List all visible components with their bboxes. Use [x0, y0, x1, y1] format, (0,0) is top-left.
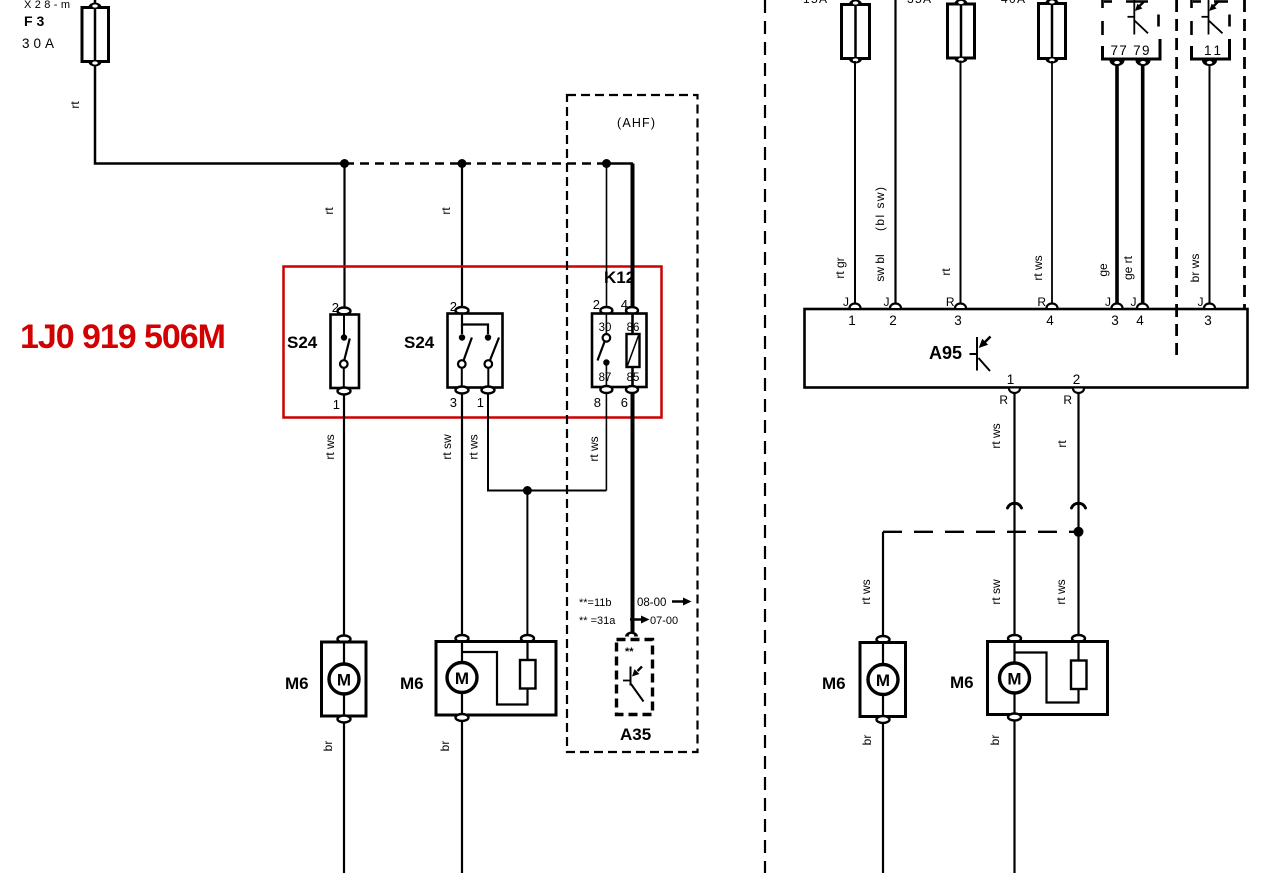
svg-text:M: M	[1007, 670, 1021, 689]
svg-text:3: 3	[954, 313, 962, 328]
svg-text:**: **	[625, 646, 634, 658]
fuse 40A	[1039, 0, 1066, 64]
svg-text:A95: A95	[929, 343, 962, 363]
wire ge to A95 pin3b	[1115, 65, 1119, 306]
A95 bottom pin2 terminal	[1073, 389, 1084, 394]
svg-text:M: M	[455, 669, 469, 688]
wire br below M6#1	[343, 722, 345, 873]
svg-text:2: 2	[889, 313, 897, 328]
junction node K12	[602, 159, 611, 168]
svg-text:rt sw: rt sw	[440, 434, 454, 460]
connector box 77 79	[1103, 0, 1161, 66]
resistor in M6#2	[520, 660, 536, 689]
svg-text:rt ws: rt ws	[467, 434, 481, 459]
wire rt ws S24#1 to M6#1	[343, 394, 345, 639]
svg-text:rt ws: rt ws	[587, 436, 601, 461]
svg-text:1: 1	[333, 397, 340, 412]
fuse 15A	[842, 0, 870, 64]
arrow 08-00	[672, 598, 692, 606]
svg-text:11: 11	[1204, 43, 1221, 58]
svg-text:A35: A35	[620, 725, 651, 744]
svg-text:1J0 919 506M: 1J0 919 506M	[20, 318, 226, 356]
wire br ws to A95 pin3c	[1209, 65, 1211, 306]
wire rt ws from K12 pin8	[605, 393, 607, 491]
A95 pin4 terminal	[1047, 304, 1058, 309]
svg-text:77 79: 77 79	[1111, 43, 1150, 58]
svg-text:br: br	[321, 741, 335, 752]
wire stub to K12 pin4	[607, 162, 634, 165]
svg-text:3: 3	[450, 395, 457, 410]
wire from junction down to M6#2 resistor	[526, 491, 528, 639]
wire rt to S24b pin2	[461, 164, 463, 311]
relay coil 86-85	[631, 314, 634, 335]
svg-text:R: R	[999, 393, 1008, 407]
switch S24 #1	[331, 300, 360, 412]
red highlight box	[284, 267, 662, 418]
wire rt from A95 pin2 down	[1077, 393, 1079, 639]
svg-text:1: 1	[477, 395, 484, 410]
svg-text:R: R	[946, 295, 955, 309]
svg-text:30A: 30A	[22, 36, 54, 51]
svg-text:R: R	[1037, 295, 1046, 309]
dashed line into A95	[1175, 0, 1178, 306]
semiconductor symbol 11	[1208, 0, 1210, 35]
pin 2 terminal	[456, 307, 469, 314]
svg-text:J: J	[1105, 295, 1111, 309]
A95 bottom pin1 terminal	[1009, 389, 1020, 394]
svg-text:J: J	[1198, 295, 1204, 309]
svg-text:J: J	[884, 295, 890, 309]
wire br below M6#4	[1013, 720, 1015, 873]
wire ge rt to A95 pin4b	[1141, 65, 1145, 306]
svg-text:3: 3	[1204, 313, 1212, 328]
pin 4 terminal	[626, 307, 638, 314]
switch body S24#1	[331, 315, 360, 389]
fuse F3 30A	[82, 0, 109, 67]
section divider dashed	[764, 0, 766, 873]
svg-text:M: M	[876, 671, 890, 690]
svg-text:08-00: 08-00	[637, 597, 666, 609]
switch body S24#2	[448, 314, 503, 388]
wire rt to S24 pin2	[343, 164, 345, 312]
wire thick K12 pin6 to A35	[631, 393, 635, 634]
svg-text:rt ws: rt ws	[1054, 579, 1068, 604]
svg-text:85: 85	[627, 372, 640, 384]
relay K12	[592, 297, 647, 410]
wire rt from F3 down	[95, 65, 345, 164]
junction node col1	[340, 159, 349, 168]
dashed line inside A95	[1175, 305, 1178, 359]
svg-text:4: 4	[1046, 313, 1054, 328]
motor M6 #4 with resistor	[988, 635, 1108, 721]
svg-text:4: 4	[1136, 313, 1144, 328]
svg-text:br: br	[988, 735, 1002, 746]
fuse 35A	[948, 0, 975, 63]
svg-text:br: br	[860, 735, 874, 746]
dashed bus wire 345-462	[345, 162, 462, 165]
svg-text:X28-m: X28-m	[24, 0, 70, 11]
svg-text:rt sw: rt sw	[989, 579, 1003, 605]
relay contact 30-87	[605, 314, 607, 335]
dashed box AHF	[567, 95, 698, 752]
A95 pin3b terminal	[1112, 304, 1123, 309]
svg-text:35A: 35A	[907, 0, 931, 6]
svg-text:07-00: 07-00	[650, 615, 678, 627]
svg-text:rt ws: rt ws	[859, 579, 873, 604]
svg-text:1: 1	[1007, 372, 1015, 387]
svg-text:M: M	[337, 671, 351, 690]
junction node pin2 wire	[1074, 527, 1084, 537]
svg-text:M6: M6	[400, 674, 424, 693]
A95 pin4b terminal	[1137, 304, 1148, 309]
svg-text:40A: 40A	[1001, 0, 1025, 6]
svg-text:2: 2	[1073, 372, 1081, 387]
svg-text:** =31a: ** =31a	[579, 615, 616, 627]
wire thick to K12 pin4	[631, 164, 635, 311]
motor M6 #3	[860, 636, 906, 723]
switch S24 #2	[448, 299, 503, 410]
motor M6 #1	[322, 636, 367, 723]
svg-text:R: R	[1063, 393, 1072, 407]
svg-text:K12: K12	[604, 268, 635, 287]
svg-text:rt ws: rt ws	[1031, 255, 1045, 280]
svg-text:rt gr: rt gr	[833, 257, 847, 278]
svg-text:M6: M6	[822, 674, 846, 693]
svg-text:rt: rt	[1055, 440, 1069, 448]
svg-text:sw bl: sw bl	[873, 254, 887, 281]
wire rt ws from A95 pin1 down	[1013, 393, 1015, 639]
svg-text:6: 6	[621, 395, 628, 410]
wire rt ws fuse3 to A95 pin4	[1051, 61, 1053, 306]
semiconductor symbol A95	[976, 337, 978, 371]
svg-text:S24: S24	[287, 333, 318, 352]
svg-text:1: 1	[848, 313, 856, 328]
svg-text:(bl sw): (bl sw)	[873, 187, 887, 231]
wire rt gr fuse1 to A95 pin1	[854, 61, 856, 306]
A95 pin2 terminal	[890, 304, 901, 309]
connector hop on pin2 wire	[1072, 503, 1086, 508]
pin 6 terminal	[626, 386, 638, 393]
wire to K12 pin2	[606, 164, 608, 311]
terminal 11	[1202, 61, 1217, 67]
svg-text:S24: S24	[404, 333, 435, 352]
dashed branch wire to M6#3	[883, 531, 1074, 533]
pin 3 terminal	[456, 387, 469, 394]
wire rt ws down to M6#3	[882, 532, 884, 640]
svg-text:rt ws: rt ws	[323, 434, 337, 459]
semiconductor symbol A35	[630, 667, 632, 686]
svg-text:15A: 15A	[803, 0, 827, 6]
arrow 31a	[630, 616, 650, 624]
svg-text:2: 2	[593, 297, 600, 312]
dashed line right edge	[1243, 0, 1246, 308]
pin 2 terminal	[600, 307, 612, 314]
junction node at M6#2 branch	[523, 486, 532, 495]
svg-text:br: br	[438, 741, 452, 752]
pin 8 terminal	[600, 386, 612, 393]
pin 1 terminal	[482, 387, 495, 394]
svg-text:J: J	[843, 295, 849, 309]
resistor in M6#4	[1071, 661, 1087, 690]
wire rt fuse2 to A95 pin3	[960, 61, 962, 307]
dashed bus wire 462-607	[462, 162, 607, 165]
svg-text:F 3: F 3	[24, 13, 44, 29]
svg-text:br ws: br ws	[1188, 254, 1202, 283]
control unit A95	[805, 295, 1248, 407]
svg-text:ge: ge	[1096, 263, 1110, 277]
svg-text:87: 87	[599, 372, 612, 384]
wire br below M6#2	[461, 721, 463, 873]
semiconductor symbol 77/79	[1133, 0, 1135, 35]
A95 pin1 terminal	[850, 304, 861, 309]
pin 1 terminal	[338, 388, 351, 395]
svg-text:ge rt: ge rt	[1121, 255, 1135, 280]
motor M6 #2 with resistor	[436, 635, 556, 721]
svg-text:3: 3	[1111, 313, 1119, 328]
wire rt sw S24#2 pin3 to M6#2	[461, 393, 463, 639]
connector box 11	[1192, 0, 1230, 66]
A95 pin3 terminal	[955, 304, 966, 309]
svg-text:**=11b: **=11b	[579, 597, 612, 609]
wire sw bl to A95 pin2	[894, 0, 896, 306]
svg-text:rt: rt	[68, 101, 82, 109]
terminal 79	[1136, 61, 1151, 67]
svg-text:M6: M6	[950, 673, 974, 692]
svg-text:J: J	[1131, 295, 1137, 309]
svg-text:rt ws: rt ws	[989, 423, 1003, 448]
svg-text:rt: rt	[322, 207, 336, 215]
control unit A35	[617, 632, 653, 715]
relay body K12	[592, 314, 647, 388]
svg-text:M6: M6	[285, 674, 309, 693]
wire rt ws S24#2 pin1 down	[488, 393, 606, 491]
svg-text:30: 30	[599, 322, 612, 334]
wire br below M6#3	[882, 723, 884, 873]
svg-text:rt: rt	[439, 207, 453, 215]
junction node col2	[458, 159, 467, 168]
svg-text:(AHF): (AHF)	[617, 116, 655, 130]
terminal 77	[1110, 61, 1125, 67]
svg-text:rt: rt	[939, 268, 953, 276]
pin 2 terminal	[338, 308, 351, 315]
A95 pin3c terminal	[1204, 304, 1215, 309]
connector hop on pin1 wire	[1008, 503, 1022, 508]
svg-text:8: 8	[594, 395, 601, 410]
